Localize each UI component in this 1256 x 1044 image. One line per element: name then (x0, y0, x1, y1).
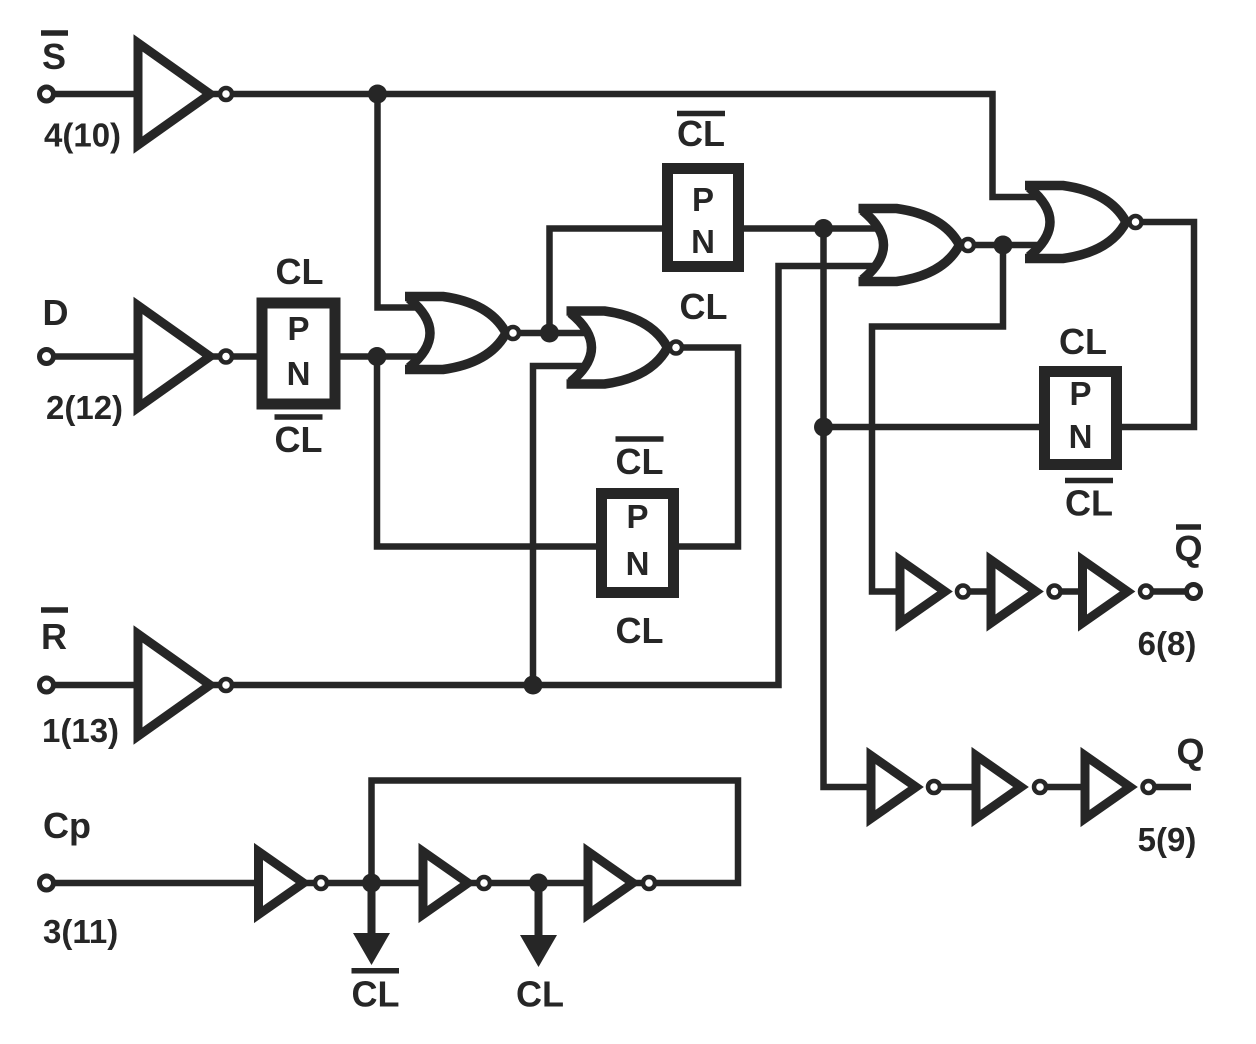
svg-text:Q: Q (1176, 731, 1204, 772)
svg-text:P: P (1069, 375, 1091, 412)
svg-text:5(9): 5(9) (1138, 821, 1197, 858)
svg-text:CL: CL (1059, 321, 1107, 362)
svg-text:D: D (43, 292, 69, 333)
svg-text:CL: CL (352, 974, 400, 1015)
svg-text:N: N (287, 355, 311, 392)
svg-text:1(13): 1(13) (42, 712, 119, 749)
svg-text:CL: CL (680, 286, 728, 327)
svg-text:Q: Q (1174, 528, 1202, 569)
svg-text:CL: CL (616, 441, 664, 482)
svg-text:CL: CL (616, 610, 664, 651)
svg-text:P: P (287, 310, 309, 347)
svg-text:Cp: Cp (43, 805, 91, 846)
svg-text:N: N (691, 223, 715, 260)
svg-text:CL: CL (1065, 483, 1113, 524)
svg-text:P: P (692, 181, 714, 218)
svg-text:3(11): 3(11) (43, 913, 118, 950)
svg-text:CL: CL (516, 974, 564, 1015)
svg-text:6(8): 6(8) (1138, 625, 1197, 662)
svg-text:N: N (626, 545, 650, 582)
svg-text:2(12): 2(12) (46, 389, 123, 426)
svg-text:S: S (42, 36, 66, 77)
svg-text:N: N (1069, 418, 1093, 455)
svg-text:R: R (41, 616, 67, 657)
svg-text:CL: CL (677, 113, 725, 154)
svg-text:CL: CL (276, 251, 324, 292)
svg-text:CL: CL (275, 419, 323, 460)
svg-text:P: P (626, 498, 648, 535)
svg-text:4(10): 4(10) (44, 117, 121, 154)
